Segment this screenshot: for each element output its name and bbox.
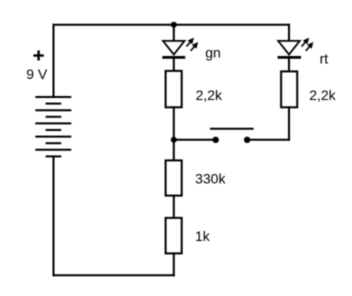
wire bottom rail: [54, 274, 174, 276]
switch S1 pushbutton: [210, 129, 254, 143]
wire node A to switch left contact: [174, 139, 213, 141]
svg-text:2,2k: 2,2k: [196, 87, 223, 103]
LED D1 green: [162, 38, 197, 57]
wire R1 to node A: [173, 107, 175, 140]
battery B1 9V: [35, 97, 71, 156]
LED D2 red: [278, 38, 313, 57]
svg-text:1k: 1k: [195, 228, 211, 244]
svg-text:2,2k: 2,2k: [309, 87, 336, 103]
svg-text:330k: 330k: [195, 171, 226, 187]
node junction top (dot): [171, 22, 177, 28]
resistor R1 2,2k: [166, 71, 182, 107]
wire LED D2 to resistor R2: [288, 57, 290, 71]
wire top rail to LED D2: [288, 25, 290, 41]
resistor R2 2,2k: [281, 71, 297, 107]
battery plus sign: [33, 50, 43, 60]
svg-text:9 V: 9 V: [26, 66, 48, 82]
wire top rail: [54, 24, 290, 26]
svg-text:gn: gn: [205, 45, 221, 61]
wire left rail lower (battery - to bottom rail): [53, 156, 55, 275]
resistor R4 1k: [166, 218, 182, 254]
wire R3 to R4: [173, 196, 175, 218]
wire switch right contact to red branch: [247, 139, 289, 141]
wire LED D1 to resistor R1: [173, 57, 175, 71]
wire R4 to bottom rail: [173, 253, 175, 275]
wire R2 to switch level: [288, 107, 290, 140]
node A junction (dot): [171, 137, 177, 143]
resistor R3 330k: [166, 160, 182, 195]
wire top rail to LED D1: [173, 25, 175, 41]
wire node A to resistor R3: [173, 140, 175, 161]
svg-text:rt: rt: [320, 51, 329, 67]
wire left rail upper (battery + to top rail): [53, 25, 55, 97]
